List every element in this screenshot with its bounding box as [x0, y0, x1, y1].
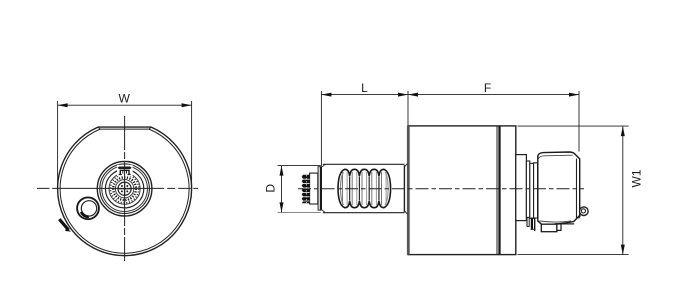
step C — [530, 163, 534, 218]
step B — [526, 161, 529, 217]
body rear flange thick line — [498, 126, 500, 254]
shank washer thin line — [317, 167, 319, 210]
flat chamfer connectors — [98, 127, 151, 129]
front view outer circle with top flat — [58, 127, 192, 256]
front view vertical centerline — [124, 116, 126, 261]
svg-text:W1: W1 — [629, 169, 643, 187]
hub serration inner ring — [115, 180, 133, 198]
dimension W arrows — [58, 103, 192, 107]
body rear flange thin line — [496, 126, 498, 254]
clamping cap body — [538, 152, 580, 224]
side lock pin crescent — [81, 212, 89, 217]
dimension D arrows — [280, 166, 284, 213]
svg-text:F: F — [484, 81, 491, 95]
svg-text:L: L — [361, 81, 368, 95]
hub ring r25 — [100, 164, 150, 214]
serration wavy silhouette — [338, 169, 391, 207]
dimension W line — [58, 104, 192, 106]
cap inner right edge — [576, 159, 578, 220]
hub ring r19 — [105, 170, 143, 208]
main body rectangle — [408, 126, 516, 255]
dimension D line — [281, 166, 283, 213]
dimension D extension lines — [278, 166, 321, 213]
front view horizontal centerline — [37, 187, 198, 189]
hub center screw circle — [118, 182, 131, 195]
dimension W1 extension lines — [518, 126, 629, 255]
shank washer thick line — [320, 167, 322, 211]
body front boss lip — [404, 164, 407, 215]
bottom bracket under steps — [527, 217, 535, 231]
rim notch lower-left — [59, 219, 71, 231]
cap bottom chamfer line — [540, 221, 572, 222]
dimension L line — [321, 94, 408, 96]
dimension F arrows — [408, 93, 579, 97]
serration interior shading lines — [343, 172, 387, 205]
hub key pi bracket — [119, 170, 131, 174]
hub serration outer ring — [109, 173, 140, 204]
serration end cap shading — [341, 172, 389, 205]
dimension F extension line right — [578, 91, 580, 152]
dimension W extension lines — [58, 101, 192, 188]
washer top and bottom edges — [318, 164, 326, 212]
hub ring r27 — [97, 161, 152, 216]
dimension L extension line left — [320, 91, 322, 166]
hub key white clearing — [117, 165, 133, 176]
dimension W1 line — [622, 126, 624, 255]
retaining pin lower right — [579, 207, 589, 219]
hub serration dot ring — [110, 175, 138, 203]
dimension L and F shared extension line — [407, 91, 409, 125]
svg-text:D: D — [264, 184, 278, 193]
hub center cross — [118, 182, 131, 195]
dimension F line — [408, 94, 579, 96]
step A — [516, 155, 527, 221]
cap collar ring — [534, 163, 538, 218]
smooth tip section — [310, 173, 318, 204]
svg-text:W: W — [119, 92, 131, 106]
hub ring r23 — [102, 166, 148, 212]
dimension L arrows — [321, 93, 408, 97]
side view centerline — [298, 188, 584, 190]
body front face thick line — [407, 126, 410, 255]
serration valley flank lines — [350, 176, 379, 200]
front view inner chamfer circle with top flat — [60, 129, 189, 253]
bottom tab under cap — [541, 224, 574, 232]
hub key pointed bar — [118, 167, 132, 170]
cap top chamfer line — [538, 155, 572, 159]
serrated bolt tip — [302, 175, 310, 204]
side lock pin circle B1 outer — [77, 197, 99, 219]
side lock pin circle B1 inner — [81, 201, 96, 216]
shank envelope lines — [323, 164, 405, 212]
dimension W1 arrows — [621, 126, 625, 255]
hub serration teeth ring — [113, 177, 136, 200]
